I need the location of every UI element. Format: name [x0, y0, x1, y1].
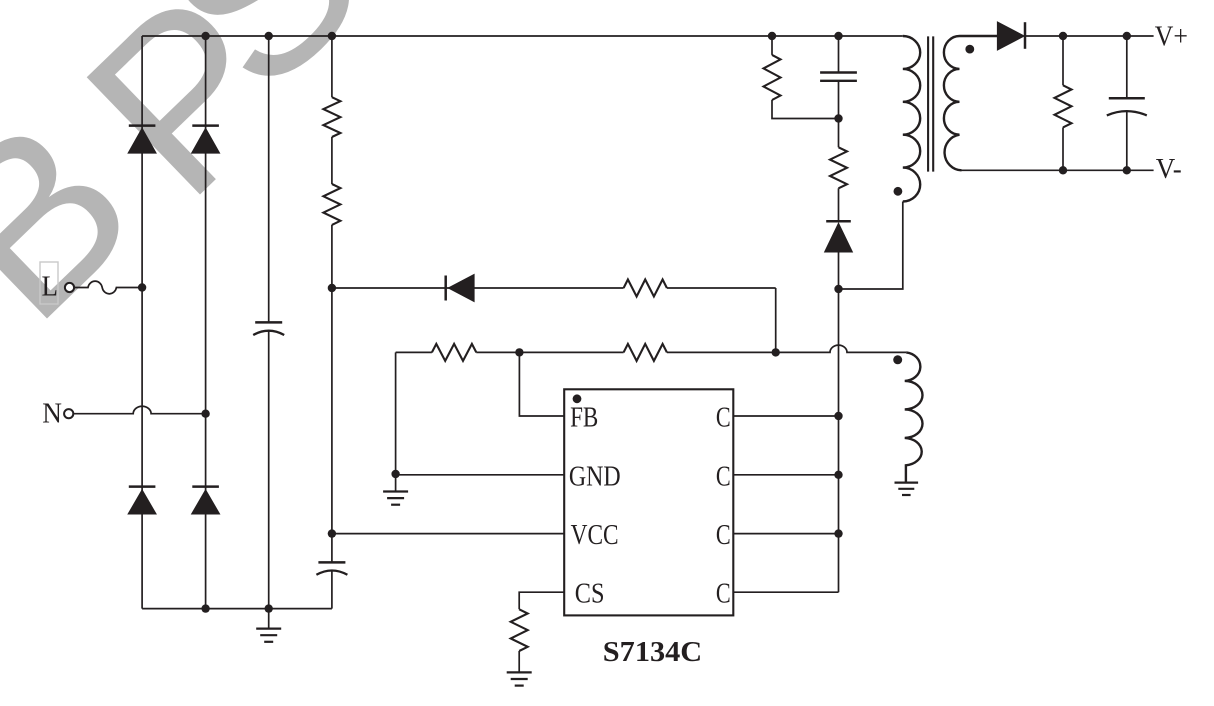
- capacitor C1: [255, 321, 282, 324]
- diode D7 (output): [997, 22, 1024, 50]
- node FB tap: [515, 348, 523, 356]
- op-amp U1 (S7134C controller) body: [564, 389, 733, 615]
- wire V- rail: [962, 169, 1154, 171]
- node bus row3: [834, 529, 842, 537]
- resistor R5: [624, 344, 667, 361]
- wire C4 top: [1126, 36, 1128, 98]
- wire middle line mid: [446, 287, 624, 289]
- resistor R6: [511, 609, 528, 651]
- watermark artifact box near L: [40, 262, 58, 304]
- wire divider branch seg4: [331, 571, 333, 609]
- ground symbol G2: [395, 474, 397, 491]
- diode D4: [192, 485, 219, 488]
- diode D3: [129, 485, 156, 488]
- diode D2: [192, 124, 219, 127]
- wire C pin row3: [733, 533, 838, 535]
- pin-1 marker dot: [573, 394, 582, 403]
- capacitor C2: [318, 561, 345, 564]
- node middle/second join: [772, 348, 780, 356]
- node L junction: [138, 283, 146, 291]
- svg-text:FB: FB: [570, 403, 598, 434]
- transformer T1 secondary dot: [965, 45, 974, 54]
- node primary return: [834, 285, 842, 293]
- wire C pin row2: [733, 474, 838, 476]
- transformer T1 primary dot: [894, 187, 903, 196]
- wire C4 bottom: [1126, 111, 1128, 170]
- svg-text:C: C: [716, 461, 731, 492]
- svg-text:S7134C: S7134C: [603, 636, 702, 668]
- node top rail / branch4: [328, 32, 336, 40]
- wire snubber mid: [838, 81, 840, 148]
- wire snubber R8 to D6: [838, 188, 840, 221]
- node top rail / snubber R: [768, 32, 776, 40]
- wire CS resistor to ground: [518, 651, 520, 672]
- node top rail / branch3: [265, 32, 273, 40]
- transformer T1 aux dot: [893, 355, 902, 364]
- transformer T1 primary winding: [903, 36, 920, 202]
- svg-text:V+: V+: [1155, 21, 1188, 52]
- node bottom rail / branch3: [265, 604, 273, 612]
- node divider tap: [328, 284, 336, 292]
- wire bulk-cap branch lower: [268, 331, 270, 609]
- wire snubber R top: [771, 36, 773, 55]
- wire middle line left: [332, 287, 446, 289]
- wire second line left end drop: [395, 352, 397, 474]
- wire FB drop: [519, 352, 564, 416]
- svg-text:VCC: VCC: [571, 520, 619, 551]
- diode D5 (points left): [444, 276, 447, 301]
- wire drain bus: [838, 289, 840, 592]
- resistor R8: [830, 147, 847, 188]
- svg-text:V-: V-: [1156, 154, 1182, 185]
- wire D6 to primary node: [838, 252, 840, 289]
- wire bottom-left rail: [142, 608, 332, 610]
- wire N with hop over line1: [73, 406, 205, 413]
- fuse FL1 (L squiggle): [74, 281, 142, 294]
- wire C pin row1: [733, 415, 838, 417]
- node N junction: [201, 410, 209, 418]
- resistor R3: [624, 280, 667, 297]
- wire divider branch seg1: [331, 36, 333, 97]
- wire CS pin: [519, 592, 564, 609]
- node snubber join: [834, 114, 842, 122]
- wire bulk-cap branch upper: [268, 36, 270, 322]
- resistor R2: [323, 184, 340, 225]
- node VCC tap: [328, 529, 336, 537]
- svg-text:GND: GND: [569, 461, 621, 492]
- wire C pin row4: [733, 591, 838, 593]
- node bottom rail / branch2: [201, 604, 209, 612]
- node bus row1: [834, 412, 842, 420]
- wire second line seg2: [476, 351, 623, 353]
- node top rail / snubber C: [834, 32, 842, 40]
- terminal N circle: [64, 409, 73, 418]
- wire top rail: [142, 35, 903, 37]
- svg-text:C: C: [716, 403, 731, 434]
- resistor R4: [432, 344, 476, 361]
- diode D6: [826, 220, 851, 223]
- wire divider branch seg3: [331, 225, 333, 563]
- node top rail / branch2: [201, 32, 209, 40]
- wire primary return: [839, 202, 903, 290]
- wire snubber R bottom: [772, 100, 839, 119]
- resistor R9: [1055, 85, 1072, 127]
- wire middle line drop: [775, 288, 777, 352]
- capacitor C3: [820, 71, 857, 73]
- resistor R7: [764, 55, 781, 100]
- capacitor C4: [1109, 97, 1145, 100]
- wire V+ rail: [1025, 35, 1154, 37]
- transformer T1 core: [927, 36, 929, 171]
- wire R9 bottom: [1062, 127, 1064, 170]
- svg-text:CS: CS: [575, 579, 605, 610]
- ground bottom rail: [268, 609, 270, 628]
- wire second line seg3 with hop over bus: [667, 345, 906, 352]
- wire R9 top: [1062, 36, 1064, 85]
- wire snubber C top: [838, 36, 840, 73]
- wire middle line right: [667, 287, 776, 289]
- node bus row2: [834, 471, 842, 479]
- ground symbol G1: [256, 627, 281, 629]
- ground symbol G4: [895, 482, 919, 484]
- wire GND pin: [396, 474, 565, 476]
- wire second line seg1: [396, 351, 432, 353]
- terminal L circle: [65, 283, 74, 292]
- svg-text:C: C: [716, 520, 731, 551]
- node V- / R9: [1059, 166, 1067, 174]
- svg-text:N: N: [42, 399, 62, 430]
- wire bridge branch 2: [205, 36, 207, 609]
- wire divider branch seg2: [331, 137, 333, 184]
- node GND junction: [391, 470, 399, 478]
- transformer T1 aux winding: [905, 352, 923, 482]
- resistor R1: [323, 97, 340, 137]
- ground symbol G3: [507, 671, 532, 673]
- transformer T1 secondary winding: [944, 36, 998, 170]
- svg-text:L: L: [42, 272, 59, 303]
- svg-text:C: C: [716, 579, 731, 610]
- node V+ / R9: [1059, 32, 1067, 40]
- node V+ / C4: [1123, 32, 1131, 40]
- wire VCC pin: [332, 533, 564, 535]
- diode D1: [129, 124, 156, 127]
- wire bridge branch 1: [141, 36, 143, 609]
- node V- / C4: [1123, 166, 1131, 174]
